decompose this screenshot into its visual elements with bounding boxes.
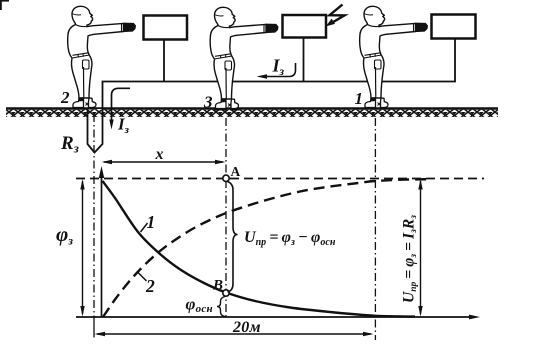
box 1 (equipment) xyxy=(144,16,188,40)
lightning fault symbol xyxy=(330,5,345,25)
grounding electrode xyxy=(88,109,103,153)
wire: inner downlead with rounded corner xyxy=(112,88,131,121)
svg-text:2: 2 xyxy=(145,276,155,296)
svg-text:3: 3 xyxy=(203,93,213,112)
wire: box1 stem xyxy=(163,40,165,82)
small brace phi osn xyxy=(217,297,225,317)
svg-text:A: A xyxy=(231,164,241,179)
wire: main bus xyxy=(103,38,456,109)
person 2 (left, above electrode) xyxy=(68,6,136,108)
dash-dot line at A (below middle person) xyxy=(225,118,227,317)
bottom distance axis xyxy=(76,316,472,318)
box 3 (equipment) xyxy=(432,15,476,39)
top-left corner artifact xyxy=(0,0,9,2)
ground surface line xyxy=(6,107,498,109)
person 3 (middle) xyxy=(210,7,278,109)
svg-text:B: B xyxy=(212,278,223,294)
box 2 (faulted equipment) xyxy=(283,15,327,38)
wire: box2 stem xyxy=(303,38,305,82)
label 2 with leader xyxy=(138,273,147,282)
20m dimension xyxy=(97,333,371,335)
dashed phi3 level line xyxy=(76,178,484,180)
svg-text:2: 2 xyxy=(60,88,70,107)
node B xyxy=(223,290,229,296)
svg-text:1: 1 xyxy=(147,212,156,232)
dash-dot line right (below right person) xyxy=(374,118,376,340)
potential axis (vertical) xyxy=(101,172,103,317)
phi3 dimension arrow xyxy=(82,181,84,314)
label 1 with leader xyxy=(141,223,148,232)
brace A to B xyxy=(228,182,238,293)
curve 2: touch voltage curve (dashed) xyxy=(103,179,430,317)
person 1 (right) xyxy=(360,6,428,108)
svg-text:1: 1 xyxy=(355,89,364,108)
svg-text:x: x xyxy=(155,146,164,163)
node A xyxy=(223,175,229,181)
x dimension line xyxy=(104,161,223,163)
ground hatch band xyxy=(6,110,498,117)
current arrow I3 along bus (hook arrow) xyxy=(263,63,296,77)
dash-dot axis of electrode xyxy=(93,114,95,317)
svg-text:20м: 20м xyxy=(232,319,261,336)
curve 1: potential distribution xyxy=(103,181,416,317)
current arrow I3 into ground xyxy=(109,120,113,130)
right dimension arrow Upr=phi3=I3R3 xyxy=(420,181,422,314)
